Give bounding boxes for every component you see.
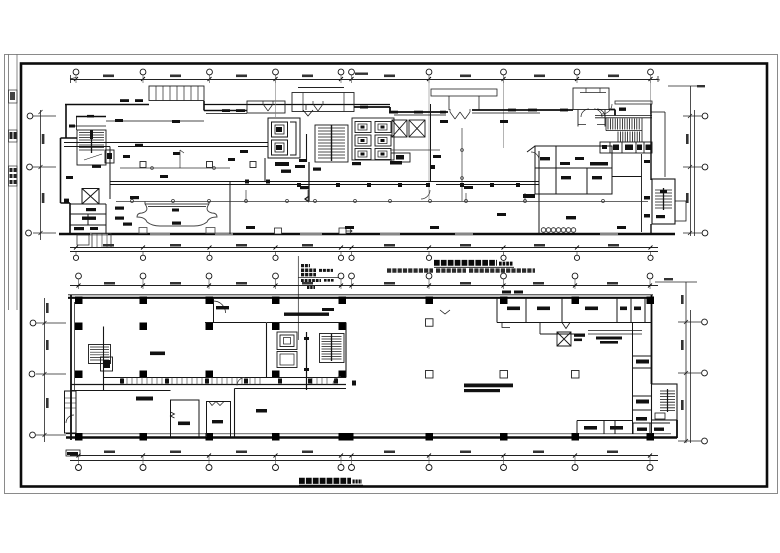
top plan: axis bubbles grid row — [73, 69, 653, 75]
bottom plan: top exterior wall — [68, 295, 653, 298]
top plan: wide stair right — [595, 109, 652, 142]
bottom plan: right axis bubbles — [702, 319, 708, 444]
top plan: canopy right end — [615, 101, 652, 104]
top plan: entry doors mid-right — [450, 109, 470, 119]
bottom plan: mid room second — [207, 402, 231, 438]
bottom plan: core stair — [320, 334, 345, 363]
bottom plan: bottom dimension lines — [70, 454, 658, 461]
top plan: canopy mid-right — [431, 89, 497, 110]
sheet title: (1F) electrical plan — [434, 260, 513, 267]
top plan: left axis bubbles — [26, 113, 33, 236]
top plan: entrance portico left — [149, 86, 204, 101]
top plan: right axis bubbles — [702, 113, 708, 236]
bottom plan: top axis leaders — [79, 279, 651, 289]
bottom plan: storage room bottom — [577, 421, 632, 435]
top plan: facade wall segment B — [204, 101, 247, 114]
top plan: entry bay 1 — [247, 101, 285, 113]
bottom plan: left panel mark — [103, 360, 110, 368]
bottom plan: storage labels bottom — [584, 426, 623, 430]
bottom plan: column grid row 2 — [75, 323, 346, 331]
sheet inner thick border — [21, 64, 767, 487]
bottom plan: right service corridor — [633, 323, 652, 434]
bottom plan: top-right room labels — [502, 291, 641, 311]
bottom plan: column grid row 3 — [75, 371, 346, 379]
bottom plan: bottom exterior wall — [66, 434, 677, 438]
bottom plan: left axis bubbles — [29, 320, 36, 438]
top plan: center elevator pair — [268, 104, 313, 162]
bottom plan: left exterior wall — [71, 295, 75, 440]
bottom plan: center core walls — [267, 323, 347, 378]
top plan: core left wall stub — [264, 158, 266, 182]
bottom plan: left dimension line — [36, 298, 66, 442]
top plan: left stairwell — [77, 130, 106, 165]
bottom plan: bottom-left ramp enclosure — [65, 391, 81, 456]
bottom plan: mid room second label — [212, 420, 223, 423]
bottom plan: column grid row 4 — [75, 433, 654, 441]
binding strip box 2 — [9, 130, 18, 142]
bottom plan: right stair protrusion — [652, 384, 678, 420]
top plan: corridor walls left wing — [64, 143, 268, 235]
bottom plan: right dimension numbers — [664, 278, 684, 410]
top plan: hall columns — [140, 162, 256, 168]
bottom plan: column grid row 1 — [75, 297, 654, 305]
top plan: bottom exterior wall with windows — [59, 233, 675, 235]
top plan: left dimension line — [33, 110, 56, 240]
bottom plan: mid-left room — [171, 400, 200, 437]
top plan: shaft x-boxes — [391, 120, 425, 162]
bottom plan: core machine room lower — [277, 352, 297, 368]
top plan: axis leader lines into plan — [276, 83, 651, 199]
top plan: lighting circuit run across lower rooms — [116, 190, 648, 203]
bottom plan: core riser line — [304, 332, 309, 390]
top plan: left dimension numbers — [42, 134, 45, 203]
bottom plan: bottom dimension numbers — [104, 451, 618, 454]
top plan: right wall and fence — [651, 104, 665, 234]
bottom plan: open columns row 3 right — [426, 371, 580, 379]
top plan: left wing equipment marks — [66, 144, 180, 179]
top plan: axis leaders — [76, 75, 651, 83]
bottom plan: storage room label — [216, 306, 229, 309]
top plan: right corridor labels — [644, 160, 650, 218]
top plan: main top wall — [354, 107, 615, 116]
top plan: elevator bank six cars — [352, 118, 394, 160]
bottom plan: left interior wall — [71, 327, 171, 391]
bottom plan: title underline — [299, 484, 363, 486]
top plan: right service corridor — [612, 154, 642, 232]
top plan: entry recess right — [573, 88, 609, 127]
bottom plan: store room wall — [235, 389, 347, 438]
top plan: scattered device labels — [115, 119, 667, 229]
top plan: corridor door posts — [245, 180, 520, 188]
bottom plan: top-left storage room — [205, 298, 266, 323]
bottom plan: corridor door arcs — [237, 377, 341, 386]
bottom plan: duty room below rooms — [540, 323, 585, 347]
top plan: facade wall segment A — [65, 105, 390, 127]
bottom plan: bicycle room label — [136, 352, 165, 401]
top plan: mid hall wiring — [390, 128, 463, 201]
legend rule lines — [298, 256, 341, 340]
top plan: right dimension numbers — [686, 85, 705, 203]
bottom plan: sheet title underground floor — [299, 478, 362, 485]
top plan: core feeder drop — [305, 162, 309, 202]
bottom plan: ramp text right — [596, 337, 622, 344]
binding strip rails — [9, 55, 18, 311]
top plan: wiring run left hall — [120, 150, 230, 169]
top plan: right rooms labels — [540, 157, 602, 179]
legend block small text — [301, 266, 334, 288]
top plan: top dimension line — [70, 75, 660, 83]
top plan: core labels — [275, 159, 608, 173]
top plan: top wall window marks — [69, 99, 626, 127]
top plan: fence circles on bottom wall — [541, 228, 576, 233]
top plan: box on bottom wall — [275, 228, 353, 234]
bottom plan: ramp hatch labels — [67, 452, 78, 455]
notes line — [387, 268, 535, 272]
bottom plan: core machine room upper — [277, 332, 297, 350]
top plan: corridor walls right wing — [110, 104, 539, 234]
bottom plan: right corridor labels — [636, 360, 649, 421]
bottom plan: left panel room — [101, 357, 113, 371]
bottom plan: bottom-right rooms — [615, 421, 670, 435]
top plan: left elevator — [82, 189, 99, 205]
bottom plan: duty room text — [574, 334, 585, 341]
top plan: lower-left rooms — [70, 204, 106, 234]
bottom plan: top-right rooms band — [440, 298, 652, 329]
top plan: toilet row right — [600, 142, 652, 153]
bottom plan: bottom-right labels — [637, 428, 664, 431]
top plan: tower exit label — [656, 215, 665, 218]
bottom plan: right exterior wall — [652, 295, 678, 438]
top plan: left entry stoops — [77, 234, 111, 248]
bottom plan: ramp lane right — [588, 331, 642, 335]
top plan: toilet row marks — [602, 145, 651, 151]
bottom plan: top dimension line — [70, 284, 658, 288]
bottom plan: top dimension numbers — [104, 282, 618, 285]
top plan: interior door arcs — [421, 104, 612, 199]
top plan: right rooms block — [527, 146, 612, 194]
bottom plan: corridor ramp upper line — [104, 377, 347, 379]
top plan: axis bubbles below bottom dim — [76, 252, 651, 255]
bottom plan: corridor band posts — [120, 379, 356, 386]
top plan: axis tick marks — [74, 77, 653, 81]
binding strip box 3 — [9, 166, 18, 186]
top plan: niche labels — [123, 209, 181, 226]
top plan: dimension numbers — [103, 73, 619, 78]
sheet title underline — [434, 266, 514, 268]
bottom plan: core text row — [284, 308, 334, 316]
bottom plan: left dimension numbers — [46, 303, 49, 408]
bottom plan: garage text — [464, 384, 513, 393]
top plan: bottom dimension numbers — [103, 244, 619, 247]
bottom plan: hollow column row2 right — [426, 319, 434, 327]
top plan: right dimension line — [668, 86, 702, 236]
bottom plan: left small stair — [89, 345, 111, 364]
top plan: right stair tower — [652, 179, 686, 224]
top plan: bottom dimension line — [70, 246, 658, 252]
bottom plan: mid-left room label — [178, 422, 190, 426]
top plan: entry hall decorative niche — [137, 201, 217, 234]
bottom plan: store room label — [256, 409, 267, 413]
top plan: furniture marks left hall — [123, 155, 235, 178]
top plan: shaft beside stair — [105, 150, 114, 163]
bottom plan: bottom axis leaders — [79, 456, 651, 465]
top plan: lower-left room labels — [64, 199, 124, 231]
bottom plan: right dimension line — [655, 282, 701, 443]
bottom plan: corridor long wall — [71, 384, 346, 386]
binding strip box 1 — [9, 90, 18, 103]
top plan: entry bay 2 — [292, 88, 354, 112]
bottom plan: ramp hatch ticks — [122, 378, 327, 385]
bottom plan: bottom axis bubbles — [76, 465, 654, 471]
top plan: center stair — [315, 125, 348, 162]
top plan: left exterior wall — [61, 105, 78, 235]
sheet outer border — [5, 55, 778, 494]
bottom plan: top axis bubbles — [76, 273, 653, 279]
